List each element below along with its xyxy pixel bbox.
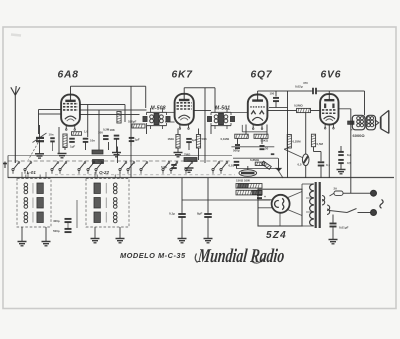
svg-text:Mundial Radio: Mundial Radio xyxy=(196,245,285,267)
svg-text:6Q7: 6Q7 xyxy=(251,70,273,81)
svg-text:1μF: 1μF xyxy=(70,145,75,149)
svg-text:M-501: M-501 xyxy=(215,106,230,112)
svg-text:0,01: 0,01 xyxy=(229,163,235,167)
svg-text:+: + xyxy=(264,195,266,199)
svg-text:100: 100 xyxy=(270,92,275,96)
svg-text:8μF: 8μF xyxy=(197,212,203,216)
svg-text:100: 100 xyxy=(98,131,103,135)
svg-text:M-508: M-508 xyxy=(151,106,166,112)
svg-text:0,1μ: 0,1μ xyxy=(169,212,175,216)
svg-text:6K7: 6K7 xyxy=(172,70,194,81)
svg-text:1μF: 1μF xyxy=(135,138,140,142)
svg-text:L-01: L-01 xyxy=(27,170,37,175)
svg-text:6V6: 6V6 xyxy=(321,70,342,81)
svg-text:O-22: O-22 xyxy=(99,170,109,175)
svg-text:470: 470 xyxy=(303,81,308,85)
svg-text:0,01μF: 0,01μF xyxy=(339,226,349,230)
svg-text:400p: 400p xyxy=(53,219,60,223)
svg-text:0,5M: 0,5M xyxy=(317,142,324,146)
svg-text:500p: 500p xyxy=(233,149,240,153)
svg-text:18K: 18K xyxy=(110,128,116,132)
svg-text:6A8: 6A8 xyxy=(58,70,79,81)
svg-text:0,02μ: 0,02μ xyxy=(295,85,303,89)
svg-text:0,25M: 0,25M xyxy=(293,140,302,144)
svg-text:0,5MΩ: 0,5MΩ xyxy=(294,104,303,108)
svg-text:6,8MΩ: 6,8MΩ xyxy=(250,158,260,162)
svg-text:0,5: 0,5 xyxy=(347,161,351,165)
svg-text:0,5: 0,5 xyxy=(298,163,302,167)
svg-text:0,1MΩ: 0,1MΩ xyxy=(221,137,230,141)
svg-text:2A: 2A xyxy=(334,187,338,191)
svg-text:150Ω 10W: 150Ω 10W xyxy=(236,179,250,183)
svg-text:50K: 50K xyxy=(202,137,208,141)
svg-text:MODELO M-C-35: MODELO M-C-35 xyxy=(120,251,186,260)
svg-text:10n: 10n xyxy=(49,133,54,137)
svg-text:500p: 500p xyxy=(53,229,60,233)
svg-text:5Z4: 5Z4 xyxy=(266,230,287,241)
svg-text:520pF: 520pF xyxy=(128,120,137,124)
svg-text:10n: 10n xyxy=(90,139,95,143)
svg-text:8,2: 8,2 xyxy=(347,153,351,157)
svg-text:6000Ω: 6000Ω xyxy=(353,133,366,138)
svg-text:50: 50 xyxy=(265,147,269,151)
svg-text:1MΩ: 1MΩ xyxy=(168,137,175,141)
